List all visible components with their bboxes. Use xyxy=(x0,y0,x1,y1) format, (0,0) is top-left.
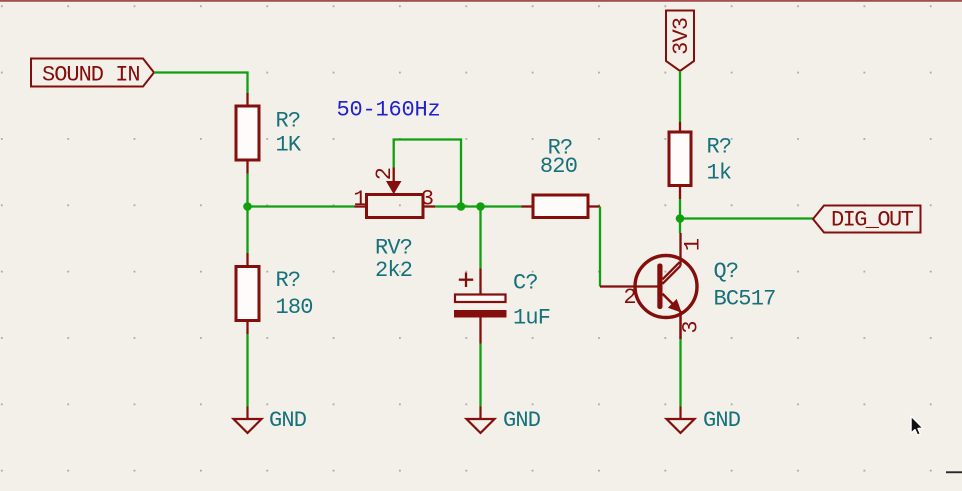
wire R1K to junction xyxy=(246,174,248,207)
pin RV pot 1 xyxy=(355,205,367,207)
emitter arrow xyxy=(669,300,681,312)
transistor collector diagonals xyxy=(663,233,681,284)
wire 3V3 to R1k xyxy=(679,71,681,122)
junction B xyxy=(457,202,466,211)
svg-text:1k: 1k xyxy=(707,161,732,186)
capacitor C? top plate xyxy=(455,295,506,303)
transistor Q1 circle xyxy=(635,256,697,318)
wire Q emitter to GND xyxy=(679,339,681,407)
pin R1K top xyxy=(246,93,248,106)
svg-text:1K: 1K xyxy=(276,133,302,158)
svg-text:3V3: 3V3 xyxy=(669,18,694,55)
wire junction D to DIG_OUT xyxy=(680,217,813,219)
pin R820 right xyxy=(588,205,600,207)
svg-text:GND: GND xyxy=(503,408,541,433)
svg-text:C?: C? xyxy=(513,271,538,296)
pin R180 top xyxy=(246,253,248,267)
pin C top xyxy=(479,269,481,295)
svg-text:RV?: RV? xyxy=(375,236,412,261)
junction C xyxy=(476,202,485,211)
global label DIG_OUT xyxy=(813,206,921,233)
transistor base bar xyxy=(657,264,662,310)
junction D xyxy=(676,214,685,223)
wire R1k to junction D xyxy=(679,199,681,219)
svg-text:2k2: 2k2 xyxy=(375,258,412,283)
sheet frame corner line bottom-right xyxy=(946,471,962,473)
wire pot wiper feedback xyxy=(394,140,461,207)
pin RV pot 3 xyxy=(423,205,435,207)
svg-text:R?: R? xyxy=(276,268,301,293)
transistor emitter xyxy=(663,294,681,339)
capacitor C? bottom plate xyxy=(454,310,507,318)
wire R180 to GND xyxy=(246,334,248,407)
resistor R820 body xyxy=(533,195,588,218)
pin R1K bottom xyxy=(246,160,248,174)
junction A xyxy=(243,202,252,211)
pot wiper arrow xyxy=(386,181,402,194)
resistor R180 body xyxy=(236,267,259,321)
pin R1k bottom xyxy=(679,186,681,200)
wire R820 to transistor base xyxy=(599,207,601,287)
potentiometer RV? body xyxy=(367,195,424,218)
ground symbol 2 xyxy=(467,407,495,434)
pin RV pot 2 xyxy=(393,168,395,183)
svg-text:1: 1 xyxy=(681,238,706,251)
svg-text:3: 3 xyxy=(679,320,704,333)
pin R1k top xyxy=(679,122,681,132)
mouse cursor xyxy=(911,416,923,435)
wire pot pin3 to R820 xyxy=(435,205,522,207)
capacitor C? plus sign xyxy=(459,273,473,288)
svg-text:3: 3 xyxy=(421,187,434,212)
svg-text:180: 180 xyxy=(276,295,313,320)
pin R180 bottom xyxy=(246,321,248,335)
wire junction A down to R180 xyxy=(246,207,248,254)
power symbol 3V3 xyxy=(666,11,694,72)
svg-text:2: 2 xyxy=(372,167,397,180)
svg-text:1uF: 1uF xyxy=(513,306,550,331)
toolbar bottom edge line xyxy=(0,0,962,2)
svg-text:50-160Hz: 50-160Hz xyxy=(337,98,441,123)
wire C to GND xyxy=(479,344,481,407)
svg-text:Q?: Q? xyxy=(714,259,739,284)
resistor R1k body xyxy=(669,132,691,186)
wire junction D to collector xyxy=(679,219,681,234)
svg-text:820: 820 xyxy=(540,154,577,179)
global label SOUND_IN xyxy=(31,59,154,87)
svg-text:SOUND IN: SOUND IN xyxy=(42,63,140,88)
wire junction C to capacitor xyxy=(479,207,481,269)
wire junction A to pot pin1 xyxy=(248,205,355,207)
ground symbol 1 xyxy=(234,407,262,434)
pin R820 left xyxy=(522,205,534,207)
pin C bottom xyxy=(479,318,481,344)
svg-text:DIG_OUT: DIG_OUT xyxy=(831,208,914,233)
ground symbol 3 xyxy=(667,407,695,434)
svg-text:R?: R? xyxy=(707,135,732,160)
svg-text:R?: R? xyxy=(276,109,301,134)
pin Q base xyxy=(600,285,658,287)
resistor R1 body xyxy=(236,106,259,160)
svg-text:GND: GND xyxy=(703,408,741,433)
svg-text:1: 1 xyxy=(353,187,366,212)
svg-text:BC517: BC517 xyxy=(714,287,776,312)
wire SOUND_IN to R1K top xyxy=(154,73,248,94)
svg-text:GND: GND xyxy=(269,408,307,433)
